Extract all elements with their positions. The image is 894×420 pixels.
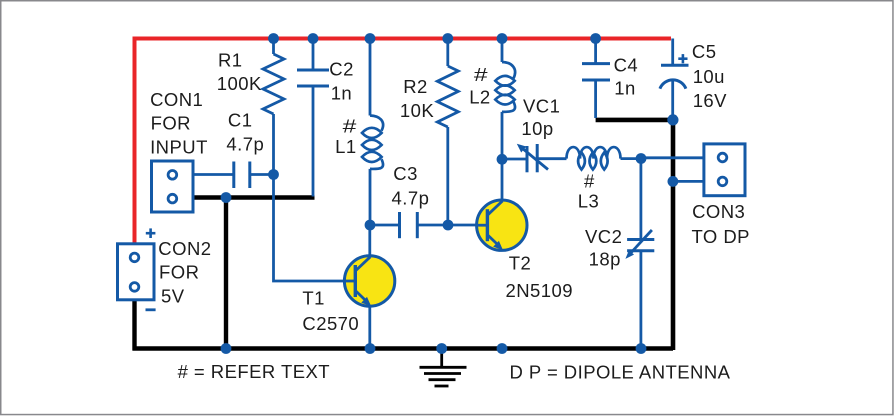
wire C3 to node bbox=[417, 224, 448, 227]
wire ground drop from CON1 pin2 line bbox=[224, 198, 228, 349]
node R1 top bbox=[268, 33, 279, 44]
capacitor C1 bbox=[234, 162, 250, 189]
node T2 emitter bbox=[497, 343, 508, 354]
ground bbox=[420, 351, 467, 387]
svg-text:INPUT: INPUT bbox=[150, 137, 208, 158]
wire L2 bottom to T2 collector bbox=[501, 112, 504, 200]
connector CON2 bbox=[118, 244, 155, 300]
svg-text:# = REFER TEXT: # = REFER TEXT bbox=[178, 361, 330, 382]
svg-text:CON2: CON2 bbox=[158, 238, 211, 259]
svg-text:10u: 10u bbox=[693, 66, 725, 87]
svg-text:100K: 100K bbox=[217, 73, 262, 94]
wire CON3 pin2 to output line bbox=[673, 180, 705, 183]
connector CON1 bbox=[152, 161, 194, 212]
transistor T2 bbox=[477, 200, 527, 250]
svg-text:C1: C1 bbox=[228, 109, 253, 130]
wire C4/C5 output elbow (black) bbox=[596, 120, 673, 350]
wire R1 bottom to T1 base bbox=[274, 114, 345, 281]
plus sign C5 bbox=[678, 54, 687, 63]
svg-text:18p: 18p bbox=[589, 249, 621, 270]
node C4 top bbox=[590, 33, 601, 44]
variable capacitor VC2 bbox=[640, 159, 643, 240]
wire node to C3 bbox=[370, 224, 400, 227]
wire CON1 pin2 to C2 bottom (black) bbox=[192, 195, 315, 199]
wire node to T2 base bbox=[448, 224, 477, 227]
svg-text:#: # bbox=[474, 64, 489, 85]
wire C1 to node R1 bbox=[250, 173, 274, 176]
wire bottom ground bus (black) bbox=[133, 346, 674, 351]
svg-text:FOR: FOR bbox=[159, 261, 199, 282]
svg-text:T1: T1 bbox=[302, 288, 325, 309]
svg-text:C3: C3 bbox=[393, 163, 418, 184]
wire L3 to node bbox=[621, 157, 643, 160]
svg-text:4.7p: 4.7p bbox=[226, 134, 264, 155]
capacitor C4 bbox=[594, 39, 597, 64]
node T1 emitter bbox=[365, 343, 376, 354]
wire C2 bottom stem bbox=[312, 86, 315, 197]
node T2 base bbox=[443, 220, 454, 231]
svg-text:4.7p: 4.7p bbox=[392, 188, 430, 209]
wire C2 top stem bbox=[312, 39, 315, 71]
wire R2 bottom stem bbox=[446, 127, 449, 225]
connector CON3 bbox=[704, 144, 745, 196]
node VC2 bottom bbox=[636, 343, 647, 354]
svg-text:C5: C5 bbox=[692, 41, 717, 62]
node C2 top bbox=[308, 33, 319, 44]
inductor L1 bbox=[362, 116, 383, 169]
svg-text:1n: 1n bbox=[614, 77, 635, 98]
node R2 top bbox=[442, 33, 453, 44]
capacitor C3 bbox=[400, 212, 418, 238]
svg-text:C4: C4 bbox=[614, 54, 639, 75]
node L2 top bbox=[497, 33, 508, 44]
plus sign CON2 bbox=[146, 228, 156, 238]
svg-text:CON3: CON3 bbox=[692, 201, 745, 222]
svg-text:T2: T2 bbox=[509, 252, 532, 273]
svg-text:1n: 1n bbox=[331, 82, 352, 103]
capacitor C5 (electrolytic) bbox=[671, 39, 674, 66]
svg-text:5V: 5V bbox=[161, 286, 185, 307]
svg-text:16V: 16V bbox=[693, 90, 727, 111]
node ground bus 1 bbox=[221, 343, 232, 354]
wire CON2 minus drop (black) bbox=[132, 299, 136, 351]
variable capacitor VC1 bbox=[502, 158, 527, 161]
node L3/VC2 bbox=[636, 153, 647, 164]
node C5 output bbox=[667, 114, 678, 125]
wire R1 top stem bbox=[272, 39, 275, 55]
minus sign CON2 bbox=[146, 308, 156, 311]
svg-text:D P = DIPOLE ANTENNA: D P = DIPOLE ANTENNA bbox=[510, 362, 731, 383]
svg-text:FOR: FOR bbox=[151, 113, 191, 134]
node T2 collector bbox=[497, 154, 508, 165]
svg-text:10K: 10K bbox=[400, 100, 434, 121]
svg-text:#: # bbox=[343, 116, 358, 137]
capacitor C2 bbox=[297, 70, 329, 86]
wire L2 top stem bbox=[501, 39, 504, 63]
inductor L2 bbox=[495, 62, 515, 112]
svg-text:L2: L2 bbox=[469, 87, 490, 108]
svg-text:VC2: VC2 bbox=[585, 226, 622, 247]
resistor R1 bbox=[263, 54, 284, 114]
transistor T1 bbox=[368, 225, 371, 256]
svg-text:C2570: C2570 bbox=[302, 313, 359, 334]
svg-text:10p: 10p bbox=[521, 118, 553, 139]
node L1 top bbox=[365, 33, 376, 44]
svg-text:VC1: VC1 bbox=[523, 96, 560, 117]
svg-text:R1: R1 bbox=[218, 50, 243, 71]
node CON1 ground bbox=[221, 192, 232, 203]
svg-text:TO DP: TO DP bbox=[692, 226, 750, 247]
svg-text:C2: C2 bbox=[329, 59, 354, 80]
svg-text:L3: L3 bbox=[578, 191, 599, 212]
svg-text:CON1: CON1 bbox=[150, 89, 203, 110]
wire R2 top stem bbox=[446, 39, 449, 67]
node T1 collector bbox=[365, 220, 376, 231]
node CON3 pin2 bbox=[668, 176, 679, 187]
node ground symbol bbox=[436, 343, 447, 354]
node C1/R1 bbox=[268, 169, 279, 180]
svg-text:R2: R2 bbox=[403, 76, 428, 97]
resistor R2 bbox=[437, 66, 458, 127]
wire L1 top stem bbox=[369, 39, 372, 116]
svg-text:2N5109: 2N5109 bbox=[506, 280, 574, 301]
wire L1 bottom stem bbox=[369, 169, 372, 225]
svg-text:#: # bbox=[584, 171, 595, 192]
wire CON1 pin1 to C1 bbox=[192, 173, 233, 176]
wire node to CON3 pin1 bbox=[642, 156, 705, 159]
svg-text:L1: L1 bbox=[335, 136, 356, 157]
inductor L3 bbox=[567, 147, 621, 170]
wire red V+ rail bbox=[135, 39, 672, 244]
